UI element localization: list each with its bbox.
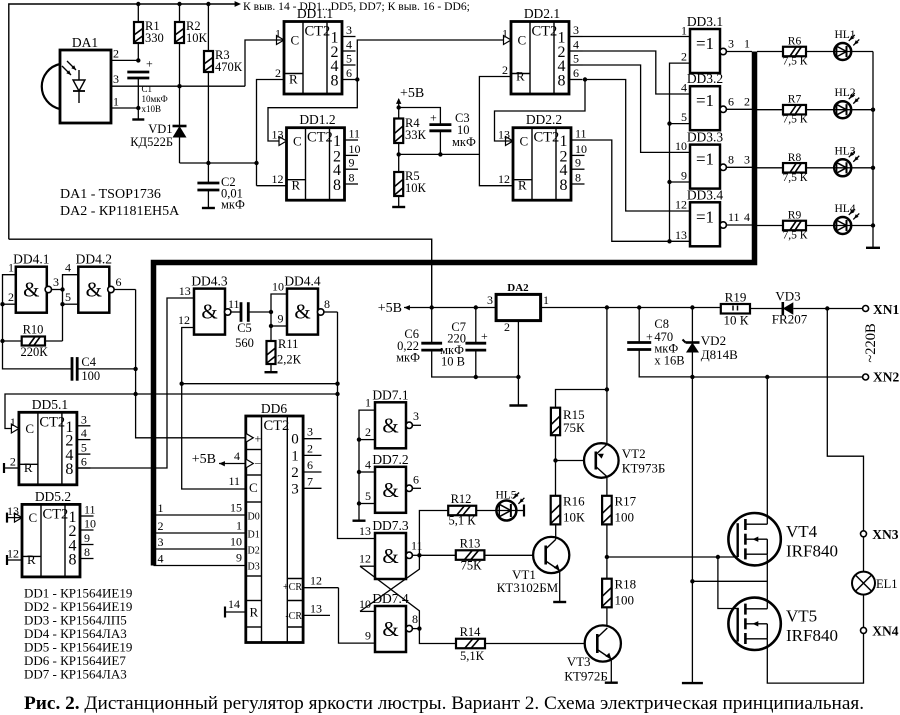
wire bus to R8 bbox=[757, 167, 783, 169]
wire DD7.1 out stub bbox=[412, 424, 421, 426]
wire C3 bottom bbox=[439, 131, 441, 155]
wire DD7.3 p12 stub bbox=[360, 565, 375, 567]
wire DD5.1 p6 to DD4.3 p13 bbox=[77, 298, 194, 468]
LED HL1 bbox=[834, 29, 859, 60]
svg-text:11: 11 bbox=[228, 474, 240, 488]
resistor R5 bbox=[394, 172, 403, 196]
output bubble DD4.3 bbox=[225, 309, 231, 315]
LED HL4 bbox=[834, 203, 859, 234]
svg-text:D3: D3 bbox=[248, 562, 260, 573]
svg-text:&: & bbox=[382, 478, 398, 502]
node XOR input bus bottom bbox=[667, 239, 671, 243]
lamp EL1 bbox=[852, 572, 875, 595]
resistor R6 bbox=[783, 47, 806, 57]
node bus to DD3.3 p9 bbox=[667, 180, 671, 184]
svg-text:13: 13 bbox=[498, 128, 510, 142]
svg-text:12: 12 bbox=[310, 574, 322, 588]
node R2/output junction bbox=[177, 84, 181, 88]
node C8 top bbox=[637, 305, 641, 309]
svg-text:&: & bbox=[23, 278, 39, 302]
ground under C2 bbox=[202, 207, 215, 209]
svg-text:DD2.1: DD2.1 bbox=[524, 6, 560, 21]
wire DD4.4 out bbox=[324, 311, 338, 313]
svg-text:Д814В: Д814В bbox=[701, 347, 738, 362]
svg-text:D0: D0 bbox=[248, 512, 260, 523]
svg-text:DA1 - TSOP1736: DA1 - TSOP1736 bbox=[60, 187, 161, 202]
svg-text:12: 12 bbox=[272, 172, 284, 186]
resistor R7 bbox=[783, 105, 806, 115]
wire XN3 to EL1 bbox=[863, 537, 865, 572]
wire bus line 4 to D3 bbox=[154, 565, 246, 567]
wire DD4.4 out vertical bbox=[338, 312, 376, 539]
resistor R2 bbox=[175, 22, 184, 43]
svg-text:C8: C8 bbox=[654, 317, 669, 331]
wire DD7.3 out to R12 bbox=[419, 511, 448, 556]
NAND gate DD7.2 bbox=[372, 452, 408, 513]
node R3 top on rail bbox=[206, 2, 210, 6]
svg-text:6: 6 bbox=[81, 455, 87, 469]
svg-text:6: 6 bbox=[573, 66, 579, 80]
svg-text:IRF840: IRF840 bbox=[786, 542, 838, 561]
transistor VT3 KT972B bbox=[585, 625, 621, 661]
svg-text:СТ2: СТ2 bbox=[39, 414, 65, 430]
svg-text:1: 1 bbox=[10, 415, 16, 429]
svg-text:2: 2 bbox=[10, 455, 16, 469]
svg-text:DD4.4: DD4.4 bbox=[284, 274, 321, 289]
node gnd net DA2 bbox=[516, 375, 520, 379]
wire C5 to node bbox=[248, 311, 271, 313]
wire DD1.1 pin6 to DD1.2 C bbox=[268, 80, 357, 142]
IC DA1 TSOP1736 IR receiver bbox=[42, 35, 111, 123]
svg-text:8: 8 bbox=[728, 152, 734, 166]
capacitor C6 bbox=[421, 343, 442, 350]
wire R6 to HL1 bbox=[806, 51, 835, 53]
ground stub DD5.1 R bbox=[4, 467, 19, 469]
svg-text:75К: 75К bbox=[563, 420, 585, 435]
svg-text:9: 9 bbox=[278, 312, 284, 326]
svg-text:10: 10 bbox=[84, 517, 96, 531]
capacitor C3 bbox=[429, 125, 451, 131]
svg-text:7,5 К: 7,5 К bbox=[783, 56, 808, 68]
arrowhead +5V left bbox=[219, 461, 225, 466]
svg-text:1: 1 bbox=[275, 27, 281, 41]
svg-text:3: 3 bbox=[413, 409, 419, 423]
wire DD2.1 p6 to DD3.4 p12 bbox=[585, 80, 690, 212]
wire p12 net to DD4.4 out bbox=[182, 383, 338, 385]
node VD2 top bbox=[690, 305, 694, 309]
svg-text:9: 9 bbox=[236, 551, 242, 565]
svg-text:HL5: HL5 bbox=[495, 490, 516, 502]
svg-text:8: 8 bbox=[65, 461, 73, 478]
terminal XN1 bbox=[863, 306, 869, 312]
output bubble DD4.1 bbox=[45, 286, 51, 292]
wire junction to R5 bbox=[398, 154, 400, 172]
svg-text:мкФ: мкФ bbox=[221, 198, 245, 212]
wire R8 to HL3 bbox=[806, 167, 835, 169]
svg-text:&: & bbox=[382, 544, 398, 568]
arrowhead +5V net bbox=[404, 305, 410, 310]
wire DD3.3 output to bus bbox=[726, 166, 752, 168]
LED HL3 bbox=[834, 145, 859, 176]
svg-text:R: R bbox=[24, 460, 33, 475]
svg-text:4: 4 bbox=[573, 38, 579, 52]
wire VD3 to XN1 bbox=[793, 308, 862, 310]
svg-text:10: 10 bbox=[349, 142, 361, 156]
svg-text:6: 6 bbox=[116, 275, 122, 289]
svg-text:R12: R12 bbox=[451, 492, 472, 506]
ground under C1 bbox=[132, 118, 144, 120]
wire DA2 pin2 to gnd bbox=[517, 321, 519, 406]
svg-text:FR207: FR207 bbox=[772, 312, 808, 327]
svg-text:6: 6 bbox=[728, 94, 734, 108]
svg-text:C: C bbox=[29, 510, 38, 525]
svg-text:3: 3 bbox=[744, 152, 750, 166]
svg-text:10: 10 bbox=[575, 142, 587, 156]
XOR gate DD3.3 bbox=[687, 130, 724, 189]
ground LED return bbox=[866, 247, 880, 249]
counter DD5.2 bbox=[7, 489, 96, 577]
resistor R9 bbox=[783, 221, 806, 231]
svg-text:2: 2 bbox=[275, 66, 281, 80]
wire DA2 pin1 to R19 bbox=[541, 307, 721, 309]
wire LED common return bbox=[872, 52, 874, 248]
wire DD3.4 output to bus bbox=[726, 224, 752, 226]
resistor R19 bbox=[721, 304, 750, 314]
svg-text:11: 11 bbox=[84, 503, 96, 517]
svg-text:12: 12 bbox=[359, 552, 371, 566]
svg-text:330: 330 bbox=[145, 31, 164, 45]
svg-text:9: 9 bbox=[349, 156, 355, 170]
node R4/R5 bbox=[397, 152, 401, 156]
output bubble DD7.2 bbox=[406, 485, 412, 491]
svg-text:XN1: XN1 bbox=[873, 302, 899, 317]
wire divider junction to DD2 R bbox=[399, 153, 480, 155]
wire DD4.3 p12 / DD6 C bbox=[182, 328, 246, 490]
svg-text:DD5.1: DD5.1 bbox=[32, 397, 68, 412]
wire DD4.1 in net to C4 bbox=[3, 275, 73, 369]
svg-text:3: 3 bbox=[53, 275, 59, 289]
svg-text:СТ2: СТ2 bbox=[264, 418, 290, 434]
NAND gate DD4.1 bbox=[13, 252, 49, 313]
svg-text:100: 100 bbox=[615, 593, 635, 608]
wire R1 to DA1 pin2 bbox=[137, 43, 139, 60]
svg-text:4: 4 bbox=[365, 458, 371, 472]
svg-text:DD7.3: DD7.3 bbox=[372, 518, 409, 533]
wire C6 to gnd net bbox=[432, 350, 519, 377]
svg-text:2: 2 bbox=[307, 441, 313, 455]
node R3/C2/VD1 junction bbox=[206, 161, 210, 165]
terminal XN3 bbox=[861, 531, 867, 537]
wire C7 bottom bbox=[475, 350, 477, 377]
svg-text:+: + bbox=[146, 57, 153, 71]
wire VT1 collector to R16 bbox=[555, 524, 557, 539]
node C4 right bbox=[133, 367, 137, 371]
capacitor C4 bbox=[72, 357, 77, 381]
svg-text:1: 1 bbox=[291, 448, 299, 464]
wire DD2.2 p11 to DD3.4 p13 bbox=[585, 140, 691, 241]
svg-text:R16: R16 bbox=[563, 494, 585, 509]
svg-text:1: 1 bbox=[113, 95, 119, 109]
svg-text:DD1.1: DD1.1 bbox=[297, 6, 333, 21]
node VT4 source net bbox=[690, 579, 694, 583]
svg-text:х10В: х10В bbox=[142, 104, 162, 114]
svg-text:1: 1 bbox=[365, 396, 371, 410]
ground VT3 emitter bbox=[605, 682, 618, 684]
svg-text:&: & bbox=[382, 413, 398, 437]
wire DD4.1 pin2 bbox=[3, 303, 16, 305]
node C7 bottom bbox=[474, 375, 478, 379]
svg-text:7,5 К: 7,5 К bbox=[783, 172, 808, 184]
wire C1 to gnd bbox=[137, 78, 139, 120]
svg-text:560: 560 bbox=[235, 336, 254, 350]
svg-text:D1: D1 bbox=[248, 530, 260, 541]
node DA1 pin1/C1 bbox=[136, 106, 140, 110]
svg-text:5: 5 bbox=[346, 52, 352, 66]
svg-text:13: 13 bbox=[272, 128, 284, 142]
svg-text:8: 8 bbox=[69, 552, 77, 569]
svg-text:100: 100 bbox=[81, 369, 100, 383]
wire DD4.1 out bbox=[52, 289, 63, 291]
svg-text:3: 3 bbox=[346, 23, 352, 37]
svg-text:1: 1 bbox=[236, 519, 242, 533]
wire HL5 to bar bbox=[517, 510, 524, 512]
svg-text:5: 5 bbox=[573, 52, 579, 66]
svg-text:C5: C5 bbox=[237, 321, 252, 335]
svg-text:2: 2 bbox=[365, 425, 371, 439]
ground under R5 bbox=[392, 206, 405, 208]
node DD4.1 pin2 bbox=[0, 302, 4, 306]
svg-text:К выв. 14 - DD1...DD5, DD7; К: К выв. 14 - DD1...DD5, DD7; К выв. 16 - … bbox=[243, 0, 470, 13]
node DD7.1 p2 bbox=[357, 437, 361, 441]
wire R15 bottom to R16 bbox=[555, 435, 557, 496]
svg-text:13: 13 bbox=[310, 602, 322, 616]
wire R14 to VT3 base bbox=[485, 643, 585, 645]
resistor R10 bbox=[22, 337, 45, 346]
svg-text:10 К: 10 К bbox=[724, 313, 749, 328]
svg-text:10К: 10К bbox=[405, 181, 427, 195]
svg-text:14: 14 bbox=[228, 597, 240, 611]
svg-text:DD3.3: DD3.3 bbox=[687, 130, 724, 145]
svg-text:4: 4 bbox=[81, 426, 87, 440]
output bubble DD7.3 bbox=[406, 552, 412, 558]
svg-text:+5В: +5В bbox=[400, 86, 424, 101]
wire DD6 -CR stub bbox=[303, 614, 330, 616]
svg-text:8: 8 bbox=[331, 73, 339, 90]
wire +5V to C3 bbox=[399, 108, 441, 125]
power marks R19 bbox=[732, 306, 734, 311]
svg-text:VT4: VT4 bbox=[786, 522, 818, 541]
svg-text:R18: R18 bbox=[615, 577, 637, 592]
wire R19 to VD3 bbox=[750, 308, 783, 310]
svg-text:8: 8 bbox=[558, 73, 566, 90]
svg-text:1: 1 bbox=[158, 501, 164, 515]
wire R13 to VT1 base bbox=[484, 554, 533, 556]
node R4 top bbox=[397, 105, 401, 109]
svg-text:100: 100 bbox=[615, 510, 635, 525]
svg-text:R: R bbox=[516, 69, 525, 84]
svg-text:4: 4 bbox=[158, 552, 164, 566]
svg-text:10: 10 bbox=[230, 535, 242, 549]
IC DA2 KR1181EN5A bbox=[496, 282, 540, 321]
svg-text:R9: R9 bbox=[788, 210, 802, 222]
wire bus line 1 to D0 bbox=[154, 514, 246, 516]
svg-text:11: 11 bbox=[728, 210, 740, 224]
wire into DD1.2 R bbox=[257, 185, 287, 187]
svg-text:2: 2 bbox=[681, 50, 687, 64]
wire DA1 pin1 to gnd bbox=[111, 107, 138, 109]
wire DD7.4 p10 stub bbox=[360, 610, 375, 612]
svg-text:VT5: VT5 bbox=[786, 607, 817, 626]
svg-text:+5В: +5В bbox=[378, 301, 402, 316]
wire EL1 to XN4 bbox=[863, 595, 865, 628]
transistor VT1 KT3102BM bbox=[533, 537, 569, 573]
svg-text:9: 9 bbox=[575, 156, 581, 170]
resistor R14 bbox=[456, 639, 485, 649]
svg-text:DD4.1: DD4.1 bbox=[13, 252, 49, 267]
node XN1 branch bbox=[825, 306, 829, 310]
wire R12 to HL5 bbox=[476, 510, 496, 512]
wire HL3 to common bbox=[850, 167, 873, 169]
wire DA1 pin3 output bbox=[111, 85, 245, 87]
svg-text:10: 10 bbox=[272, 280, 284, 294]
wire HL4 to common bbox=[850, 225, 873, 227]
wire DD4.2 pin5 bbox=[63, 303, 79, 305]
svg-text:12: 12 bbox=[178, 313, 190, 327]
svg-text:33К: 33К bbox=[405, 128, 427, 142]
node DD4.4 out to p12 line bbox=[335, 382, 339, 386]
wire DD4.4 out to DD5.1 C bbox=[5, 394, 338, 429]
svg-text:DA2 - КР1181ЕН5А: DA2 - КР1181ЕН5А bbox=[60, 204, 180, 219]
capacitor C8 bbox=[627, 343, 651, 350]
svg-text:DD7.1: DD7.1 bbox=[372, 387, 408, 402]
node VT4 drain branch bbox=[765, 375, 769, 379]
svg-text:4: 4 bbox=[681, 81, 687, 95]
svg-text:12: 12 bbox=[7, 547, 19, 561]
svg-text:5: 5 bbox=[365, 489, 371, 503]
wire VT3 emitter to gnd bbox=[610, 659, 612, 683]
resistor R4 bbox=[394, 119, 403, 144]
wire pin6 ext bbox=[356, 79, 358, 81]
svg-text:КТ3102БМ: КТ3102БМ bbox=[497, 580, 559, 595]
svg-text:4: 4 bbox=[234, 449, 240, 463]
node R10 left bbox=[0, 339, 4, 343]
svg-text:DA1: DA1 bbox=[72, 35, 98, 50]
svg-text:220К: 220К bbox=[20, 345, 48, 359]
counter DD5.1 bbox=[10, 397, 91, 485]
svg-text:&: & bbox=[294, 300, 310, 324]
svg-text:3: 3 bbox=[573, 23, 579, 37]
node DD2.1 pin6 bbox=[583, 77, 587, 81]
LED HL5 bbox=[495, 490, 524, 521]
wire bus to DD3.2 p5 bbox=[670, 123, 691, 125]
wire to R10 bbox=[3, 340, 22, 342]
svg-text:11: 11 bbox=[575, 127, 587, 141]
diode VD3 FR207 bbox=[783, 302, 794, 315]
svg-text:C: C bbox=[518, 33, 527, 48]
node VD2 bottom bbox=[690, 375, 694, 379]
svg-text:2: 2 bbox=[504, 320, 510, 334]
wire VD2 net to XN2 bbox=[692, 376, 862, 378]
wire DD1.1 pin6 to DD2.1 C bbox=[357, 40, 511, 80]
resistor R8 bbox=[783, 163, 806, 173]
svg-text:10: 10 bbox=[359, 597, 371, 611]
node DD4.1 out bbox=[60, 287, 64, 291]
wire cross p12 to DD7.4 out bbox=[360, 566, 419, 628]
ground under DA2 bbox=[509, 404, 527, 406]
resistor R18 bbox=[602, 579, 612, 608]
svg-text:6: 6 bbox=[346, 66, 352, 80]
wire VT2 collector to R17 bbox=[606, 477, 608, 496]
wire DD6 +CR bbox=[303, 587, 338, 589]
svg-text:=1: =1 bbox=[696, 34, 714, 53]
svg-text:4: 4 bbox=[744, 210, 750, 224]
svg-text:1: 1 bbox=[681, 24, 687, 38]
ground stub DD5.2 R bbox=[7, 559, 22, 561]
node DD4.2 pin5 bbox=[60, 302, 64, 306]
svg-text:СТ2: СТ2 bbox=[534, 130, 560, 146]
wire R9 to HL4 bbox=[806, 225, 835, 227]
svg-text:DD2.2: DD2.2 bbox=[526, 112, 562, 127]
svg-text:1: 1 bbox=[502, 27, 508, 41]
wire R7 to HL2 bbox=[806, 109, 835, 111]
wire R18 to VT3 collector bbox=[606, 607, 608, 626]
node DD4.3 p12 to DD4.4 out bbox=[180, 382, 184, 386]
svg-text:10: 10 bbox=[675, 139, 687, 153]
svg-text:C: C bbox=[291, 33, 300, 48]
svg-text:=1: =1 bbox=[696, 91, 714, 110]
wire bus to DD3.3 p9 bbox=[670, 181, 691, 183]
svg-text:XN4: XN4 bbox=[872, 624, 898, 639]
svg-text:DD6: DD6 bbox=[261, 401, 287, 416]
svg-text:R6: R6 bbox=[788, 36, 802, 48]
svg-text:3: 3 bbox=[158, 535, 164, 549]
LED HL2 bbox=[834, 87, 859, 118]
svg-text:8: 8 bbox=[333, 177, 341, 194]
svg-text:&: & bbox=[201, 300, 217, 324]
svg-text:5: 5 bbox=[65, 290, 71, 304]
ground VT1 emitter bbox=[553, 601, 566, 603]
NAND gate DD4.3 bbox=[191, 274, 228, 335]
svg-text:=1: =1 bbox=[696, 207, 714, 226]
wire R5 to gnd bbox=[398, 196, 400, 207]
wire DD2.1 p6 to DD2.2 C bbox=[495, 80, 586, 142]
capacitor C2 bbox=[197, 183, 219, 190]
node gate drive bbox=[605, 555, 609, 559]
node C3 bottom bbox=[438, 152, 442, 156]
svg-text:8: 8 bbox=[575, 171, 581, 185]
wire DD1.1 R to DD1.2 R bbox=[257, 80, 285, 186]
svg-text:EL1: EL1 bbox=[876, 577, 898, 591]
wire R4 to junction bbox=[398, 143, 400, 154]
wire DD7.2 out stub bbox=[412, 487, 421, 489]
wire DD2.1 R to DD2.2 R bbox=[479, 77, 513, 186]
terminal XN4 bbox=[861, 627, 867, 633]
svg-text:DD7 - КР1564ЛА3: DD7 - КР1564ЛА3 bbox=[24, 667, 127, 682]
counter DD6 KR1564IE7 bbox=[246, 401, 322, 643]
wire to C8 bbox=[638, 308, 640, 343]
ground stub DD6 R bbox=[225, 611, 246, 613]
svg-text:R8: R8 bbox=[788, 152, 802, 164]
svg-text:R: R bbox=[289, 72, 298, 87]
svg-text:х 16В: х 16В bbox=[654, 354, 684, 368]
wire cross p10 to DD7.3 out bbox=[360, 555, 419, 611]
counter DD1.1 bbox=[275, 6, 356, 94]
arrowhead +5V up bbox=[396, 98, 401, 104]
wire VT1 emitter to gnd bbox=[559, 571, 561, 603]
wire node to DD4.4 p9 bbox=[271, 325, 287, 327]
svg-text:3: 3 bbox=[487, 293, 493, 307]
svg-text:VD2: VD2 bbox=[701, 333, 726, 348]
